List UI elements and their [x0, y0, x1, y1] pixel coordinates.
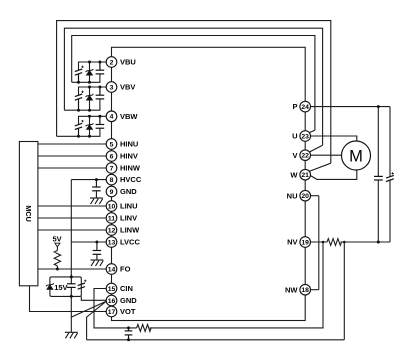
svg-text:LINU: LINU — [120, 202, 138, 211]
svg-text:GND: GND — [120, 187, 137, 196]
junction C12 top — [377, 105, 380, 108]
junction N- riser — [343, 241, 346, 244]
pin 16 — [106, 295, 117, 306]
electrolytic capacitor C13 (DC bus) — [386, 107, 394, 242]
wire LVCC — [71, 241, 106, 243]
pin 22 — [300, 150, 311, 161]
electrolytic capacitor C5 (VBW) — [75, 123, 82, 136]
C13 plus sign — [391, 172, 394, 175]
svg-text:24: 24 — [301, 104, 309, 111]
svg-text:6: 6 — [110, 153, 114, 160]
svg-text:17: 17 — [108, 309, 116, 316]
junction C12 bottom — [377, 241, 380, 244]
wire net U-phase top loop — [72, 36, 315, 131]
svg-text:VBV: VBV — [120, 83, 135, 92]
pin 17 — [106, 306, 117, 317]
svg-text:LINV: LINV — [120, 214, 137, 223]
zener diode D4 (15V) — [46, 283, 54, 289]
svg-text:20: 20 — [301, 193, 309, 200]
wire NU stub — [311, 195, 319, 197]
wire net W-phase top loop — [57, 21, 331, 164]
junction HVCC cap — [95, 178, 98, 181]
wire W to motor — [310, 170, 357, 179]
wire CIN sense — [94, 289, 137, 328]
svg-text:5: 5 — [110, 141, 114, 148]
svg-text:LVCC: LVCC — [120, 238, 140, 247]
svg-text:18: 18 — [301, 287, 309, 294]
junction dots VBV group — [77, 86, 101, 112]
pin 7 — [106, 163, 117, 174]
wire VOT to MCU — [30, 286, 107, 312]
svg-text:14: 14 — [108, 266, 116, 273]
svg-text:VBW: VBW — [120, 112, 138, 121]
pin 21 — [300, 169, 311, 180]
pin 5 — [106, 139, 117, 150]
svg-text:NU: NU — [287, 191, 298, 200]
pin 6 — [106, 151, 117, 162]
svg-text:23: 23 — [301, 133, 309, 140]
C5 plus sign — [81, 120, 83, 122]
wire GND diagonal to ground — [71, 301, 106, 317]
wire P bus — [311, 106, 391, 108]
junction C11 on N- rail — [127, 338, 130, 341]
svg-text:NV: NV — [287, 238, 297, 247]
pin 23 — [300, 131, 311, 142]
pin 12 — [106, 225, 117, 236]
junction CIN cap — [127, 326, 130, 329]
bootstrap group VBW bottom rail — [57, 128, 100, 136]
C1 plus sign — [81, 66, 83, 68]
wire V diagonal to pin 22 — [309, 145, 322, 152]
pin 13 — [106, 237, 117, 248]
wire GND diagonal to N rail — [87, 301, 107, 340]
junction dots 15V loop — [70, 275, 73, 298]
svg-text:U: U — [292, 132, 297, 141]
svg-text:NW: NW — [285, 285, 298, 294]
pin 18 — [300, 284, 311, 295]
svg-text:2: 2 — [110, 59, 114, 66]
wire CIN to shunt — [150, 242, 324, 328]
svg-text:HINV: HINV — [120, 152, 138, 161]
IC outline U1 — [112, 47, 306, 320]
svg-text:12: 12 — [108, 227, 116, 234]
wire FO — [38, 268, 106, 270]
svg-text:HINU: HINU — [120, 140, 138, 149]
bootstrap group VBW top rail — [79, 116, 107, 124]
electrolytic capacitor C10 (15V loop) — [78, 283, 85, 289]
junction FO pull-up — [56, 268, 59, 271]
wire U to motor — [311, 136, 357, 141]
wire LINV — [38, 217, 106, 219]
resistor R2 (CIN filter) — [137, 324, 151, 331]
svg-text:W: W — [290, 170, 298, 179]
wire W diagonal to pin 21 — [309, 163, 331, 171]
wire N tie vertical — [318, 196, 320, 290]
svg-text:CIN: CIN — [120, 284, 133, 293]
C3 plus sign — [81, 91, 83, 93]
svg-text:FO: FO — [120, 265, 131, 274]
wire VCC rail vertical — [70, 180, 72, 277]
junction CIN riser — [322, 241, 325, 244]
electrolytic capacitor C3 (VBV) — [75, 94, 82, 110]
15V supply loop — [50, 277, 81, 297]
C10 plus sign — [84, 280, 86, 282]
wire N- rail bottom — [87, 339, 345, 341]
svg-text:MCU: MCU — [24, 205, 33, 221]
svg-text:LINW: LINW — [120, 226, 140, 235]
bootstrap group VBV bottom rail — [64, 99, 100, 110]
capacitor C7 (HVCC decoupling) — [92, 180, 101, 198]
pin 10 — [106, 201, 117, 212]
pin 3 — [106, 82, 117, 93]
wire LINU — [38, 205, 106, 207]
capacitor C12 (snubber) — [374, 107, 383, 242]
svg-text:19: 19 — [301, 239, 309, 246]
svg-text:M: M — [349, 147, 363, 165]
wire HINU — [38, 143, 106, 145]
pin 15 — [106, 283, 117, 294]
pin 11 — [106, 213, 117, 224]
pin 24 — [300, 101, 311, 112]
wire U diagonal to pin 23 — [309, 130, 315, 132]
wire V to motor — [311, 154, 342, 156]
svg-text:4: 4 — [110, 114, 114, 121]
pin 8 — [106, 174, 117, 185]
svg-text:7: 7 — [110, 165, 114, 172]
MCU block — [19, 142, 38, 286]
bootstrap group VBV top rail — [79, 87, 107, 95]
wire resistor to FO — [56, 266, 58, 269]
capacitor C4 (VBV) — [96, 87, 105, 99]
wire shunt to caps — [340, 241, 390, 243]
resistor R3 (shunt) — [327, 239, 341, 246]
junction LVCC cap — [95, 241, 98, 244]
ground symbol (main) — [65, 332, 78, 338]
capacitor C8 (LVCC decoupling) — [93, 242, 102, 260]
svg-text:GND: GND — [120, 296, 137, 305]
capacitor C2 (VBU) — [96, 62, 105, 74]
svg-text:21: 21 — [301, 172, 309, 179]
svg-text:13: 13 — [108, 239, 116, 246]
wire HINV — [38, 155, 106, 157]
svg-text:10: 10 — [108, 203, 116, 210]
svg-text:VBU: VBU — [120, 58, 136, 67]
pin 9 — [106, 186, 117, 197]
wire HINW — [38, 167, 106, 169]
wire LINW — [38, 229, 106, 231]
capacitor C9 (15V loop) — [67, 277, 76, 297]
pin 14 — [106, 264, 117, 275]
svg-text:V: V — [292, 151, 297, 160]
svg-text:22: 22 — [301, 153, 309, 160]
svg-text:3: 3 — [110, 84, 114, 91]
wire ground vertical — [70, 296, 72, 332]
wire 15V loop to pin16 GND — [81, 296, 106, 300]
pin 19 — [300, 237, 311, 248]
wire net V-phase top loop — [64, 28, 322, 145]
capacitor C6 (VBW) — [96, 116, 105, 128]
svg-text:11: 11 — [108, 215, 115, 222]
svg-text:HINW: HINW — [120, 164, 141, 173]
ground symbol (HVCC cap) — [90, 198, 103, 204]
capacitor C11 (CIN filter) — [125, 328, 133, 340]
ground symbol (LVCC cap) — [91, 260, 104, 266]
junction dots VBW group — [77, 115, 101, 138]
wire NV to shunt — [311, 241, 328, 243]
pin 2 — [106, 57, 117, 68]
resistor R1 (FO pull-up) — [54, 251, 60, 266]
motor M1 — [342, 141, 371, 170]
svg-text:5V: 5V — [53, 234, 62, 243]
5V supply triangle — [55, 243, 60, 247]
wire N- rail riser — [343, 242, 345, 340]
zener diode D2 (VBV) — [86, 87, 94, 110]
pin 4 — [106, 111, 117, 122]
svg-text:VOT: VOT — [120, 307, 136, 316]
bootstrap group VBU top rail — [79, 62, 107, 70]
junction dots VBU group — [77, 61, 101, 84]
svg-text:15V: 15V — [54, 283, 67, 292]
wire 5V to resistor — [56, 247, 58, 251]
wire NW stub — [311, 289, 319, 291]
bootstrap group VBU bottom rail — [72, 74, 100, 82]
svg-text:15: 15 — [108, 286, 116, 293]
zener diode D1 (VBU) — [86, 62, 94, 82]
svg-text:8: 8 — [110, 177, 114, 184]
wire HVCC — [71, 179, 106, 181]
pin 20 — [300, 190, 311, 201]
svg-text:9: 9 — [110, 189, 114, 196]
svg-text:P: P — [292, 102, 297, 111]
svg-text:HVCC: HVCC — [120, 175, 142, 184]
svg-text:16: 16 — [108, 298, 116, 305]
electrolytic capacitor C1 (VBU) — [75, 69, 82, 82]
zener diode D3 (VBW) — [86, 116, 94, 136]
